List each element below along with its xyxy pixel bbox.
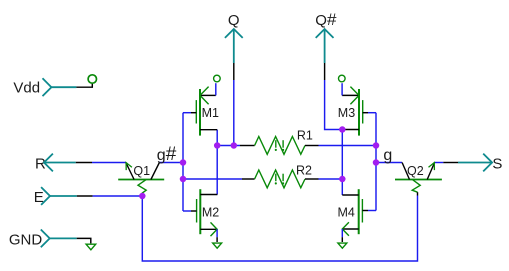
wire R2 row right: [319, 178, 343, 180]
svg-text:S: S: [492, 155, 502, 172]
svg-text:GND: GND: [9, 231, 43, 248]
wire left gate column: [182, 113, 184, 211]
transistor M2 (NMOS): [191, 189, 219, 242]
wire right gate column: [375, 113, 377, 211]
port E: [34, 187, 93, 206]
junction M1/M2 drains with R1: [214, 142, 221, 149]
svg-text:R2: R2: [296, 163, 312, 177]
wire M4 gate stub: [368, 210, 376, 212]
wire M3 gate stub: [368, 112, 376, 114]
ground symbol at GND port: [86, 244, 96, 250]
value label R1 (!!): [275, 140, 285, 151]
port R: [35, 154, 92, 173]
wire g net horizontal: [376, 162, 402, 164]
svg-text:g: g: [383, 147, 392, 164]
junction right gate column with R1: [373, 142, 380, 149]
wire g# net horizontal: [159, 162, 183, 164]
wire R1 row right: [319, 145, 377, 147]
svg-text:M2: M2: [202, 206, 219, 220]
wire E net bottom U to Q2 gate: [142, 196, 417, 262]
wire E net: [93, 195, 143, 197]
transistor M1 (PMOS): [191, 75, 220, 135]
svg-text:R1: R1: [297, 129, 313, 143]
svg-text:Vdd: Vdd: [13, 79, 40, 96]
port Q#: [315, 10, 337, 80]
svg-text:g#: g#: [157, 144, 177, 165]
port GND: [9, 230, 91, 249]
resistor R1: [240, 129, 319, 155]
svg-text:M4: M4: [338, 206, 355, 220]
junction E net with Q1 gate: [139, 193, 146, 200]
port Q: [225, 12, 243, 80]
junction right drain column with R2: [339, 176, 346, 183]
svg-text:Q: Q: [228, 12, 240, 29]
svg-text:Q#: Q#: [315, 10, 337, 29]
value label R2 (!!): [275, 174, 285, 185]
wire Q net vertical: [233, 80, 235, 146]
wire Q# net vertical and corner to M3 drain: [325, 80, 343, 130]
svg-text:M1: M1: [202, 106, 219, 120]
wire S net: [435, 162, 444, 164]
wire R net: [92, 162, 126, 164]
junction at g#: [180, 159, 187, 166]
wire M2 gate stub: [183, 210, 191, 212]
junction right gate column with g: [373, 159, 380, 166]
wire left drain column: [216, 130, 218, 195]
wire right drain column: [341, 130, 343, 196]
junction left gate/R2: [180, 176, 187, 183]
junction Q# net with M3 drain: [339, 126, 346, 133]
port Vdd: [13, 75, 96, 97]
svg-text:Q2: Q2: [407, 164, 424, 178]
transistor Q2 (pass device, mirrored): [395, 163, 442, 196]
svg-text:Q1: Q1: [133, 164, 150, 178]
port S: [443, 154, 502, 173]
ground symbol at M2 source: [213, 243, 222, 248]
resistor R2: [242, 163, 319, 188]
ground symbol at M4 source: [338, 243, 347, 248]
wire R1 row left: [217, 145, 240, 147]
transistor Q1 (pass device): [118, 163, 164, 197]
junction Q net with R1 row: [231, 142, 238, 149]
svg-text:M3: M3: [338, 106, 355, 120]
wire M1 gate stub: [183, 112, 191, 114]
wire R2 row left: [183, 178, 242, 180]
transistor M4 (NMOS, mirrored): [338, 189, 369, 242]
transistor M3 (PMOS, mirrored): [338, 75, 368, 135]
